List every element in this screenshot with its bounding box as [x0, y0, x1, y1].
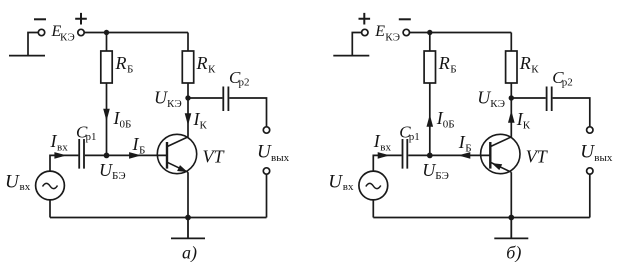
- plus sign (b): [359, 13, 371, 25]
- current arrow I_B (right): [129, 152, 141, 159]
- terminal Uout lower (b): [587, 168, 593, 174]
- svg-text:U: U: [257, 142, 272, 163]
- svg-text:R: R: [196, 53, 208, 73]
- wire collector branch: [187, 83, 189, 137]
- current arrow I_0B (down): [103, 109, 110, 121]
- svg-text:БЭ: БЭ: [112, 170, 126, 182]
- ground (battery left terminal): [9, 33, 45, 56]
- svg-text:БЭ: БЭ: [435, 170, 449, 182]
- svg-text:вх: вх: [57, 142, 68, 154]
- wire to R_B (b): [429, 33, 431, 52]
- source U_in: [36, 171, 65, 200]
- svg-text:а): а): [182, 243, 197, 262]
- node collector (b): [509, 95, 514, 100]
- resistor R_K (b): [506, 51, 517, 83]
- plus sign: [75, 13, 87, 25]
- current arrow I_B (left, b): [458, 152, 470, 159]
- current arrow I_K (up, b): [508, 111, 515, 123]
- wire bottom rail: [50, 217, 267, 219]
- svg-text:КЭ: КЭ: [385, 32, 400, 44]
- svg-text:R: R: [438, 53, 450, 73]
- resistor R_B: [101, 51, 112, 83]
- wire top rail (b): [410, 32, 512, 34]
- capacitor Cp2: [223, 87, 228, 112]
- svg-text:U: U: [154, 88, 168, 108]
- svg-text:U: U: [477, 88, 491, 108]
- wire source bottom: [49, 200, 51, 218]
- svg-text:К: К: [523, 120, 531, 132]
- node base-divider junction (b): [427, 30, 432, 35]
- svg-text:р1: р1: [86, 131, 97, 143]
- svg-text:VT: VT: [526, 147, 549, 167]
- svg-text:E: E: [374, 23, 385, 40]
- node base (b): [427, 153, 433, 159]
- wire R_B to base node (b): [429, 83, 431, 155]
- node base-divider junction: [104, 30, 109, 35]
- wire source to Cp1 (b): [373, 155, 401, 170]
- ground (bottom): [171, 218, 205, 239]
- wire Cp2 to output: [229, 98, 266, 127]
- svg-text:К: К: [531, 64, 539, 76]
- svg-text:Б: Б: [465, 143, 471, 155]
- svg-text:U: U: [5, 172, 20, 193]
- wire emitter (b): [510, 172, 512, 217]
- terminal circle E+ (b): [362, 29, 368, 35]
- wire to R_B: [106, 33, 108, 52]
- svg-text:вх: вх: [380, 142, 391, 154]
- wire base: [85, 154, 167, 156]
- wire collector to Cp2 (b): [511, 97, 545, 99]
- terminal circle E+: [78, 29, 84, 35]
- svg-text:VT: VT: [203, 147, 226, 167]
- wire to R_K: [187, 33, 189, 52]
- wire collector to Cp2: [188, 97, 222, 99]
- wire base (b): [408, 154, 490, 156]
- source U_in (b): [359, 171, 388, 200]
- svg-text:Б: Б: [127, 64, 133, 76]
- svg-text:U: U: [99, 160, 113, 180]
- svg-text:Б: Б: [139, 145, 145, 157]
- wire to R_K (b): [510, 33, 512, 52]
- transistor VT (npn): [157, 134, 196, 173]
- terminal circle E-: [38, 29, 44, 35]
- current arrow I_in (right): [54, 152, 66, 159]
- svg-text:0Б: 0Б: [443, 119, 455, 131]
- terminal circle E- (b): [403, 29, 409, 35]
- resistor R_K: [182, 51, 193, 83]
- svg-text:р2: р2: [562, 77, 573, 89]
- wire Cp2 to output (b): [553, 98, 590, 127]
- node emitter-bottom: [185, 215, 191, 221]
- svg-text:КЭ: КЭ: [167, 98, 182, 110]
- svg-text:R: R: [519, 53, 531, 73]
- svg-text:К: К: [208, 64, 216, 76]
- ground (battery left terminal, b): [333, 33, 369, 56]
- svg-text:U: U: [422, 160, 436, 180]
- node emitter-bottom (b): [508, 215, 514, 221]
- wire emitter: [187, 172, 189, 217]
- svg-text:вых: вых: [271, 152, 290, 164]
- capacitor Cp1: [79, 139, 84, 169]
- current arrow I_in (right, b): [378, 152, 390, 159]
- svg-text:Б: Б: [450, 64, 456, 76]
- svg-text:б): б): [506, 243, 521, 262]
- minus sign: [34, 18, 46, 20]
- svg-text:К: К: [200, 120, 208, 132]
- svg-text:вых: вых: [594, 152, 613, 164]
- svg-text:0Б: 0Б: [120, 119, 132, 131]
- wire top rail: [84, 32, 188, 34]
- wire R_B to base node: [106, 83, 108, 155]
- terminal Uout lower: [263, 168, 269, 174]
- svg-text:р2: р2: [239, 77, 250, 89]
- svg-text:R: R: [115, 53, 127, 73]
- wire collector branch (b): [510, 83, 512, 137]
- node collector: [185, 95, 190, 100]
- ground (bottom, b): [494, 218, 528, 239]
- svg-text:КЭ: КЭ: [60, 32, 75, 44]
- terminal Uout upper (b): [587, 127, 593, 133]
- svg-text:вх: вх: [343, 181, 354, 193]
- wire source to Cp1: [50, 155, 78, 170]
- resistor R_B (b): [424, 51, 435, 83]
- svg-text:р1: р1: [409, 131, 420, 143]
- wire bottom rail (b): [373, 217, 590, 219]
- current arrow I_K (down): [185, 113, 192, 125]
- svg-text:U: U: [328, 172, 343, 193]
- transistor VT (pnp, b): [481, 134, 520, 173]
- svg-text:U: U: [580, 142, 595, 163]
- minus sign (b): [399, 18, 411, 20]
- capacitor Cp2 (b): [547, 87, 552, 112]
- svg-text:КЭ: КЭ: [490, 98, 505, 110]
- terminal Uout upper: [263, 127, 269, 133]
- svg-text:вх: вх: [20, 181, 31, 193]
- wire source bottom (b): [372, 200, 374, 218]
- wire output return: [266, 174, 268, 217]
- current arrow I_0B (up, b): [427, 115, 434, 127]
- wire output return (b): [589, 174, 591, 217]
- node base: [104, 153, 110, 159]
- capacitor Cp1 (b): [403, 139, 408, 169]
